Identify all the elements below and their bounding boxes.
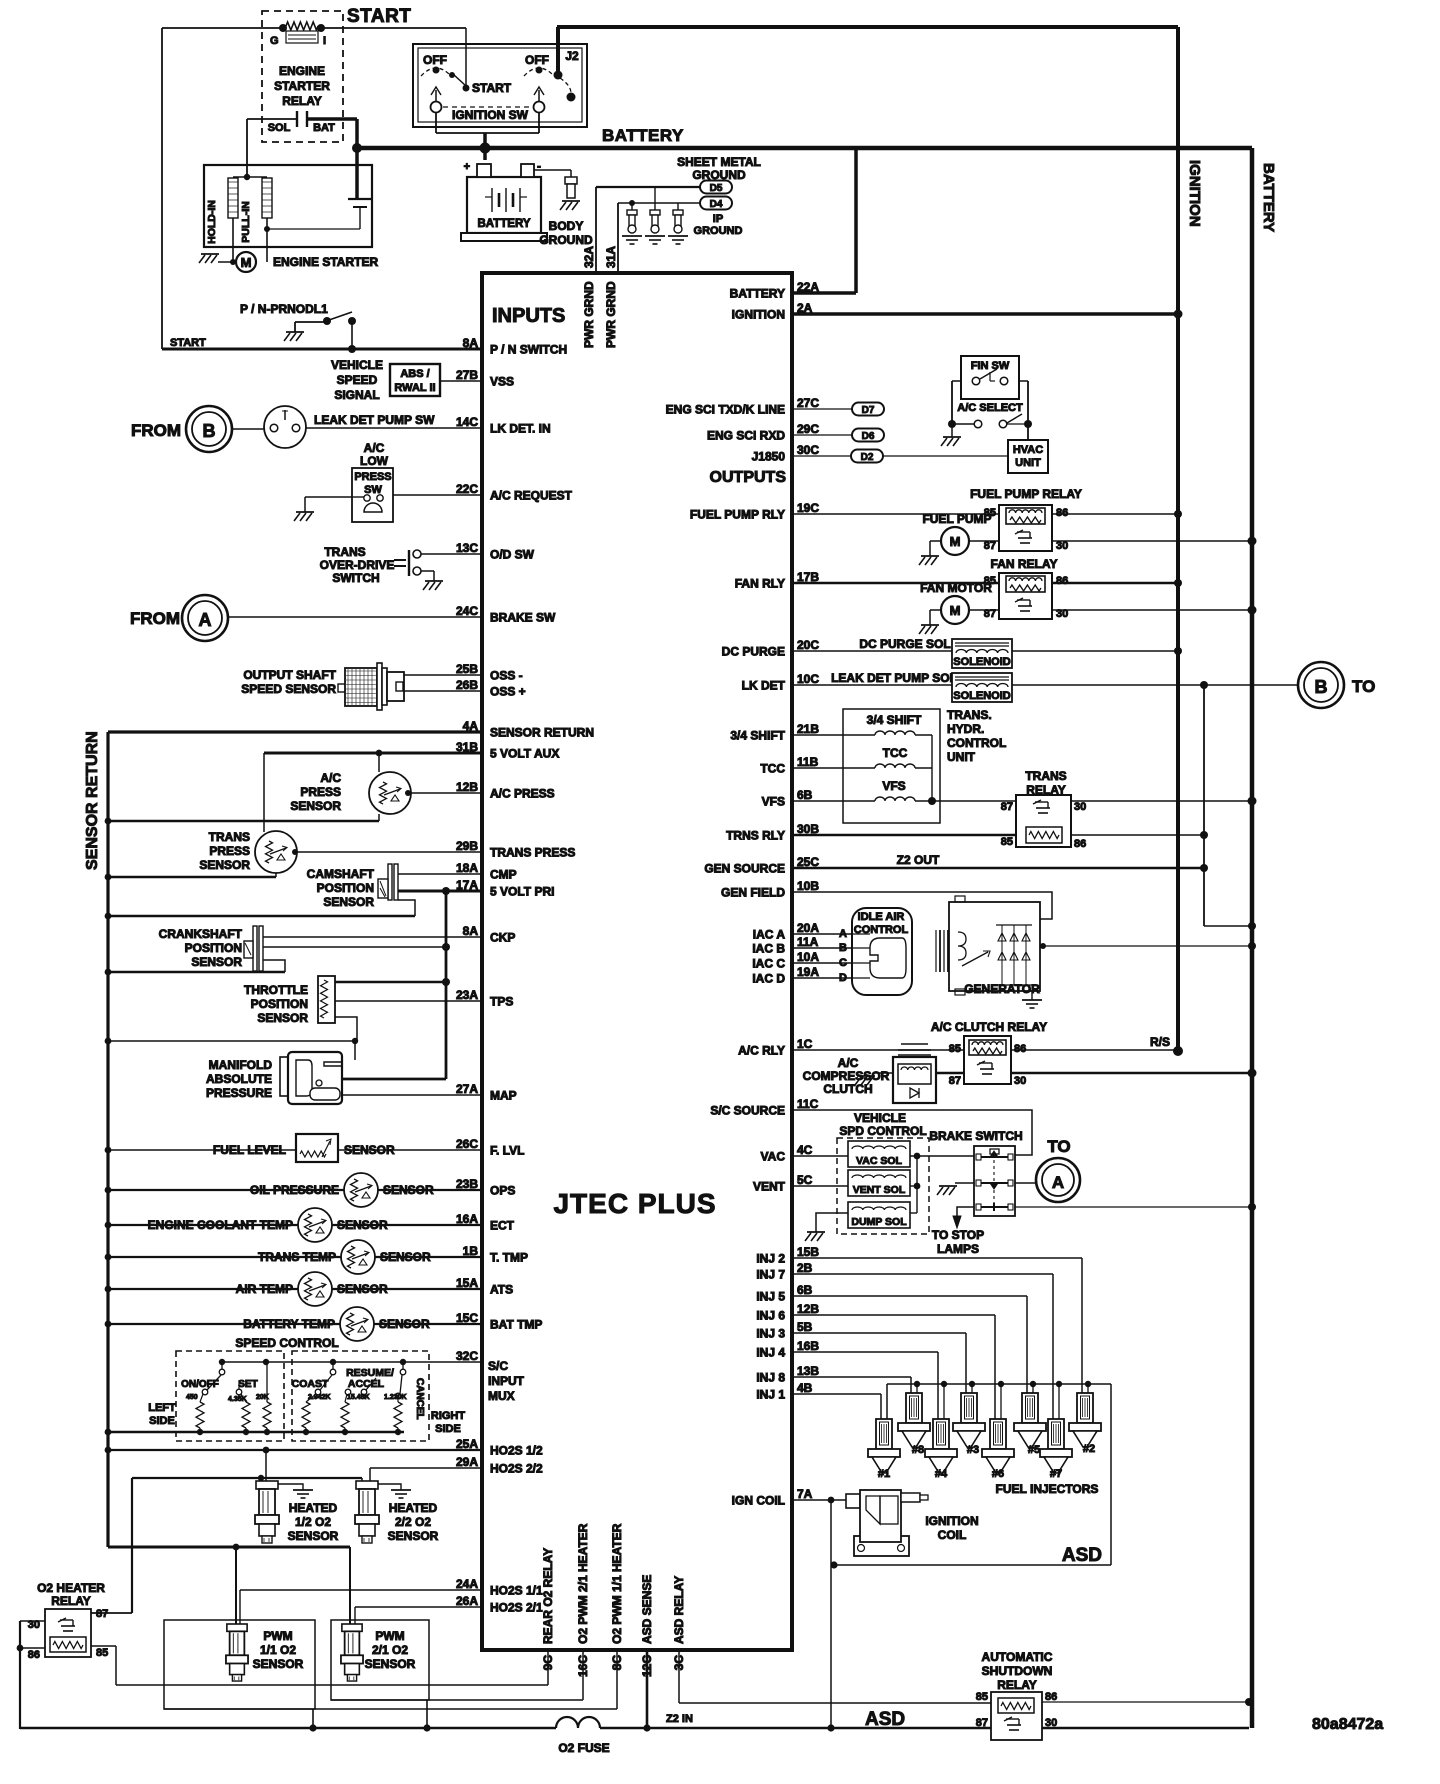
svg-text:15B: 15B xyxy=(797,1245,819,1259)
svg-text:1.230K: 1.230K xyxy=(384,1394,407,1401)
svg-text:MUX: MUX xyxy=(488,1389,515,1403)
svg-text:4.35K: 4.35K xyxy=(228,1396,247,1403)
svg-text:PRESS: PRESS xyxy=(209,844,250,858)
svg-text:BATTERY: BATTERY xyxy=(602,126,684,145)
svg-text:86: 86 xyxy=(1014,1043,1026,1055)
svg-text:SENSOR: SENSOR xyxy=(344,1143,395,1157)
svg-text:26B: 26B xyxy=(456,678,478,692)
svg-text:A: A xyxy=(1052,1173,1064,1192)
svg-text:SIDE: SIDE xyxy=(435,1423,461,1435)
svg-text:BRAKE SWITCH: BRAKE SWITCH xyxy=(929,1129,1022,1143)
svg-text:87: 87 xyxy=(96,1608,108,1620)
svg-text:ENGINE: ENGINE xyxy=(279,64,325,78)
svg-text:15.48K: 15.48K xyxy=(347,1394,370,1401)
svg-text:A/C CLUTCH RELAY: A/C CLUTCH RELAY xyxy=(931,1020,1047,1034)
svg-text:2.942K: 2.942K xyxy=(308,1394,331,1401)
svg-text:-: - xyxy=(537,159,541,173)
svg-text:3/4 SHIFT: 3/4 SHIFT xyxy=(867,713,922,727)
svg-text:87: 87 xyxy=(1001,801,1013,813)
svg-text:85: 85 xyxy=(96,1647,108,1659)
svg-text:4C: 4C xyxy=(797,1143,813,1157)
svg-text:GEN SOURCE: GEN SOURCE xyxy=(704,862,785,876)
svg-text:TO: TO xyxy=(1352,677,1375,696)
svg-text:FUEL INJECTORS: FUEL INJECTORS xyxy=(996,1482,1099,1496)
svg-text:6B: 6B xyxy=(797,1283,813,1297)
svg-text:A: A xyxy=(839,928,847,940)
svg-text:M: M xyxy=(950,603,961,618)
svg-text:GEN FIELD: GEN FIELD xyxy=(721,886,785,900)
svg-text:1/1 O2: 1/1 O2 xyxy=(260,1643,296,1657)
svg-text:TRNS RLY: TRNS RLY xyxy=(726,829,785,843)
svg-text:Z2 IN: Z2 IN xyxy=(666,1713,693,1725)
svg-text:UNIT: UNIT xyxy=(1015,457,1041,469)
svg-text:VAC SOL: VAC SOL xyxy=(856,1155,902,1167)
svg-text:RELAY: RELAY xyxy=(51,1594,91,1608)
svg-text:HYDR.: HYDR. xyxy=(947,722,984,736)
svg-text:14C: 14C xyxy=(456,415,478,429)
svg-text:INJ 2: INJ 2 xyxy=(756,1252,785,1266)
svg-text:OVER-DRIVE: OVER-DRIVE xyxy=(320,558,395,572)
svg-text:ASD: ASD xyxy=(1062,1545,1102,1566)
svg-text:OSS +: OSS + xyxy=(490,685,526,699)
svg-text:29A: 29A xyxy=(456,1455,478,1469)
svg-text:2/1 O2: 2/1 O2 xyxy=(372,1643,408,1657)
svg-text:INJ 6: INJ 6 xyxy=(756,1309,785,1323)
svg-text:85: 85 xyxy=(1001,836,1013,848)
svg-text:A/C REQUEST: A/C REQUEST xyxy=(490,489,573,503)
svg-text:SENSOR: SENSOR xyxy=(337,1218,388,1232)
svg-text:OPS: OPS xyxy=(490,1184,515,1198)
svg-text:MANIFOLD: MANIFOLD xyxy=(209,1058,273,1072)
svg-text:IAC B: IAC B xyxy=(752,942,785,956)
svg-text:#4: #4 xyxy=(935,1468,948,1480)
svg-text:13C: 13C xyxy=(456,541,478,555)
svg-text:SWITCH: SWITCH xyxy=(332,571,379,585)
svg-text:OUTPUTS: OUTPUTS xyxy=(710,469,787,486)
svg-text:RWAL II: RWAL II xyxy=(394,382,435,394)
svg-text:ASD: ASD xyxy=(865,1709,905,1730)
svg-text:SIGNAL: SIGNAL xyxy=(334,388,379,402)
svg-text:IGNITION SW: IGNITION SW xyxy=(452,108,529,122)
svg-text:STARTER: STARTER xyxy=(274,79,330,93)
svg-text:B: B xyxy=(203,421,216,441)
svg-text:POSITION: POSITION xyxy=(185,941,242,955)
svg-text:3/4 SHIFT: 3/4 SHIFT xyxy=(730,729,785,743)
svg-text:O2 HEATER: O2 HEATER xyxy=(37,1581,105,1595)
svg-text:#6: #6 xyxy=(992,1468,1004,1480)
svg-text:2B: 2B xyxy=(797,1261,813,1275)
svg-text:HVAC: HVAC xyxy=(1013,444,1043,456)
svg-text:20C: 20C xyxy=(797,638,819,652)
svg-text:INJ 7: INJ 7 xyxy=(756,1268,785,1282)
svg-text:PRESSURE: PRESSURE xyxy=(206,1086,272,1100)
svg-text:BATTERY: BATTERY xyxy=(477,218,530,230)
svg-text:ATS: ATS xyxy=(490,1283,513,1297)
svg-text:LEAK DET PUMP SOL: LEAK DET PUMP SOL xyxy=(831,671,957,685)
svg-text:AIR TEMP: AIR TEMP xyxy=(236,1282,293,1296)
svg-text:86: 86 xyxy=(1045,1691,1057,1703)
svg-text:A/C: A/C xyxy=(838,1056,859,1070)
svg-text:12B: 12B xyxy=(797,1302,819,1316)
svg-text:SENSOR: SENSOR xyxy=(199,858,250,872)
svg-text:SENSOR: SENSOR xyxy=(253,1657,304,1671)
svg-text:CONTROL: CONTROL xyxy=(947,736,1006,750)
svg-text:ASD SENSE: ASD SENSE xyxy=(640,1575,654,1644)
svg-text:BATTERY: BATTERY xyxy=(1260,163,1277,232)
svg-text:24A: 24A xyxy=(456,1577,478,1591)
svg-text:22C: 22C xyxy=(456,482,478,496)
svg-text:32A: 32A xyxy=(582,246,596,268)
svg-text:SOL: SOL xyxy=(268,122,291,134)
svg-text:SENSOR: SENSOR xyxy=(383,1183,434,1197)
svg-text:8A: 8A xyxy=(463,924,479,938)
svg-text:21B: 21B xyxy=(797,722,819,736)
svg-text:HO2S 2/1: HO2S 2/1 xyxy=(490,1601,543,1615)
svg-text:SOLENOID: SOLENOID xyxy=(953,656,1011,668)
svg-text:TCC: TCC xyxy=(760,762,785,776)
svg-text:SENSOR RETURN: SENSOR RETURN xyxy=(84,731,101,870)
svg-text:VENT SOL: VENT SOL xyxy=(853,1184,906,1196)
svg-text:SPD CONTROL: SPD CONTROL xyxy=(839,1124,926,1138)
svg-text:COAST: COAST xyxy=(292,1378,329,1390)
svg-text:M: M xyxy=(950,534,961,549)
svg-text:GENERATOR: GENERATOR xyxy=(964,982,1040,996)
svg-text:DC PURGE SOL: DC PURGE SOL xyxy=(859,637,950,651)
svg-text:IAC D: IAC D xyxy=(752,972,785,986)
svg-text:DUMP SOL: DUMP SOL xyxy=(851,1216,907,1228)
svg-text:#3: #3 xyxy=(967,1444,979,1456)
svg-text:85: 85 xyxy=(976,1691,988,1703)
svg-text:8A: 8A xyxy=(463,336,479,350)
svg-text:SENSOR: SENSOR xyxy=(191,955,242,969)
svg-text:GROUND: GROUND xyxy=(692,168,746,182)
svg-text:TCC: TCC xyxy=(883,746,908,760)
svg-text:6B: 6B xyxy=(797,788,813,802)
svg-text:PRESS: PRESS xyxy=(354,471,391,483)
svg-text:IDLE AIR: IDLE AIR xyxy=(858,911,905,923)
svg-text:FUEL PUMP RLY: FUEL PUMP RLY xyxy=(690,508,785,522)
svg-text:START: START xyxy=(170,337,206,349)
svg-text:HO2S 1/2: HO2S 1/2 xyxy=(490,1444,543,1458)
svg-text:INJ 8: INJ 8 xyxy=(756,1371,785,1385)
svg-text:B: B xyxy=(1315,677,1328,697)
svg-text:SOLENOID: SOLENOID xyxy=(953,690,1011,702)
svg-text:Z2 OUT: Z2 OUT xyxy=(897,853,940,867)
svg-text:24C: 24C xyxy=(456,604,478,618)
svg-text:12B: 12B xyxy=(456,780,478,794)
svg-text:#8: #8 xyxy=(912,1444,924,1456)
svg-text:FUEL PUMP: FUEL PUMP xyxy=(922,512,991,526)
svg-text:30: 30 xyxy=(1074,801,1086,813)
svg-text:IAC C: IAC C xyxy=(752,957,785,971)
svg-text:POSITION: POSITION xyxy=(251,997,308,1011)
svg-text:SPEED SENSOR: SPEED SENSOR xyxy=(241,682,336,696)
svg-text:30C: 30C xyxy=(797,443,819,457)
svg-text:O/D SW: O/D SW xyxy=(490,548,535,562)
svg-text:FAN MOTOR: FAN MOTOR xyxy=(920,581,992,595)
svg-text:SENSOR: SENSOR xyxy=(380,1250,431,1264)
svg-text:80a8472a: 80a8472a xyxy=(1312,1716,1383,1733)
svg-text:87: 87 xyxy=(984,540,996,552)
svg-text:SENSOR: SENSOR xyxy=(337,1282,388,1296)
svg-text:J2: J2 xyxy=(565,49,579,63)
svg-text:T. TMP: T. TMP xyxy=(490,1251,528,1265)
svg-text:TRANS PRESS: TRANS PRESS xyxy=(490,846,575,860)
svg-text:VENT: VENT xyxy=(753,1180,786,1194)
svg-text:7A: 7A xyxy=(797,1487,813,1501)
svg-text:IP: IP xyxy=(713,213,723,225)
svg-text:D7: D7 xyxy=(862,405,875,416)
svg-text:M: M xyxy=(241,255,252,270)
svg-text:INJ 5: INJ 5 xyxy=(756,1290,785,1304)
svg-text:CAMSHAFT: CAMSHAFT xyxy=(307,867,375,881)
svg-text:R/S: R/S xyxy=(1150,1035,1170,1049)
svg-text:RELAY: RELAY xyxy=(997,1678,1037,1692)
svg-text:SHUTDOWN: SHUTDOWN xyxy=(982,1664,1053,1678)
svg-text:A/C: A/C xyxy=(364,441,385,455)
svg-text:4B: 4B xyxy=(797,1381,813,1395)
svg-text:HO2S 1/1: HO2S 1/1 xyxy=(490,1584,543,1598)
svg-text:GROUND: GROUND xyxy=(539,233,593,247)
svg-text:MAP: MAP xyxy=(490,1089,517,1103)
svg-text:PRESS: PRESS xyxy=(300,785,341,799)
svg-text:IAC A: IAC A xyxy=(753,928,786,942)
svg-text:OSS -: OSS - xyxy=(490,669,523,683)
svg-text:10B: 10B xyxy=(797,879,819,893)
svg-text:FAN RELAY: FAN RELAY xyxy=(991,557,1058,571)
svg-text:86: 86 xyxy=(1056,575,1068,587)
svg-text:I: I xyxy=(323,35,326,47)
svg-text:UNIT: UNIT xyxy=(947,750,976,764)
svg-text:LEFT: LEFT xyxy=(148,1402,176,1414)
svg-text:INJ 3: INJ 3 xyxy=(756,1327,785,1341)
svg-text:11A: 11A xyxy=(797,935,819,949)
svg-text:450: 450 xyxy=(186,1394,198,1401)
svg-text:C: C xyxy=(839,957,847,969)
svg-text:D6: D6 xyxy=(862,431,875,442)
svg-text:TRANS TEMP: TRANS TEMP xyxy=(258,1250,336,1264)
svg-text:#5: #5 xyxy=(1028,1444,1040,1456)
svg-text:5 VOLT PRI: 5 VOLT PRI xyxy=(490,885,554,899)
svg-text:31A: 31A xyxy=(604,246,618,268)
svg-text:ABS /: ABS / xyxy=(400,368,429,380)
svg-text:PWR GRND: PWR GRND xyxy=(604,281,618,348)
svg-text:D2: D2 xyxy=(861,452,874,463)
svg-text:LK DET. IN: LK DET. IN xyxy=(490,422,551,436)
svg-text:27B: 27B xyxy=(456,368,478,382)
svg-text:RIGHT: RIGHT xyxy=(431,1410,466,1422)
svg-text:FUEL PUMP RELAY: FUEL PUMP RELAY xyxy=(970,487,1082,501)
svg-text:FIN SW: FIN SW xyxy=(971,360,1010,372)
svg-text:5C: 5C xyxy=(797,1173,813,1187)
svg-text:SENSOR: SENSOR xyxy=(290,799,341,813)
svg-text:OIL PRESSURE: OIL PRESSURE xyxy=(250,1183,339,1197)
svg-text:IGNITION: IGNITION xyxy=(1186,160,1203,227)
svg-text:TO: TO xyxy=(1047,1137,1070,1156)
svg-text:20K: 20K xyxy=(256,1394,269,1401)
svg-text:13B: 13B xyxy=(797,1364,819,1378)
svg-text:OUTPUT SHAFT: OUTPUT SHAFT xyxy=(243,668,336,682)
svg-text:START: START xyxy=(472,81,512,95)
svg-text:23A: 23A xyxy=(456,988,478,1002)
svg-text:A/C PRESS: A/C PRESS xyxy=(490,787,555,801)
svg-text:30: 30 xyxy=(1056,540,1068,552)
svg-text:G: G xyxy=(270,35,279,47)
svg-text:1/2 O2: 1/2 O2 xyxy=(295,1515,331,1529)
svg-text:#2: #2 xyxy=(1083,1443,1095,1455)
svg-text:INJ 1: INJ 1 xyxy=(756,1388,785,1402)
svg-text:O2 FUSE: O2 FUSE xyxy=(558,1741,609,1755)
svg-text:FAN RLY: FAN RLY xyxy=(735,577,785,591)
svg-text:OFF: OFF xyxy=(423,53,447,67)
svg-text:D4: D4 xyxy=(710,199,723,210)
svg-text:87: 87 xyxy=(949,1075,961,1087)
svg-text:S/C SOURCE: S/C SOURCE xyxy=(710,1104,785,1118)
svg-text:A: A xyxy=(199,610,212,630)
svg-text:B: B xyxy=(839,942,847,954)
svg-text:COMPRESSOR: COMPRESSOR xyxy=(803,1069,890,1083)
svg-text:CKP: CKP xyxy=(490,931,515,945)
svg-text:VEHICLE: VEHICLE xyxy=(854,1111,906,1125)
svg-text:10A: 10A xyxy=(797,950,819,964)
svg-text:TRANS.: TRANS. xyxy=(947,708,992,722)
svg-text:O2 PWM 1/1 HEATER: O2 PWM 1/1 HEATER xyxy=(610,1523,624,1644)
svg-text:TO STOP: TO STOP xyxy=(932,1228,984,1242)
svg-text:J1850: J1850 xyxy=(752,450,786,464)
svg-text:HEATED: HEATED xyxy=(389,1501,438,1515)
svg-text:CRANKSHAFT: CRANKSHAFT xyxy=(159,927,243,941)
svg-text:VFS: VFS xyxy=(882,779,905,793)
svg-text:GROUND: GROUND xyxy=(694,225,743,237)
svg-text:19C: 19C xyxy=(797,501,819,515)
svg-text:BATTERY: BATTERY xyxy=(730,287,785,301)
svg-text:IGNITION: IGNITION xyxy=(925,1514,978,1528)
svg-text:F. LVL: F. LVL xyxy=(490,1144,524,1158)
svg-text:26A: 26A xyxy=(456,1594,478,1608)
svg-text:86: 86 xyxy=(28,1649,40,1661)
svg-text:D5: D5 xyxy=(710,183,723,194)
svg-text:VEHICLE: VEHICLE xyxy=(331,358,383,372)
svg-text:OFF: OFF xyxy=(525,53,549,67)
svg-text:+: + xyxy=(464,161,470,173)
svg-text:27A: 27A xyxy=(456,1082,478,1096)
svg-text:30: 30 xyxy=(1014,1075,1026,1087)
svg-text:86: 86 xyxy=(1074,838,1086,850)
svg-text:CLUTCH: CLUTCH xyxy=(823,1082,872,1096)
svg-text:18A: 18A xyxy=(456,861,478,875)
svg-text:32C: 32C xyxy=(456,1349,478,1363)
svg-text:VAC: VAC xyxy=(761,1150,786,1164)
svg-text:IGN COIL: IGN COIL xyxy=(732,1494,785,1508)
svg-text:P / N SWITCH: P / N SWITCH xyxy=(490,343,567,357)
svg-text:BAT TMP: BAT TMP xyxy=(490,1318,542,1332)
svg-text:HO2S 2/2: HO2S 2/2 xyxy=(490,1462,543,1476)
svg-text:SENSOR: SENSOR xyxy=(388,1529,439,1543)
svg-text:ENGINE COOLANT TEMP: ENGINE COOLANT TEMP xyxy=(148,1218,293,1232)
svg-text:A/C RLY: A/C RLY xyxy=(738,1044,785,1058)
svg-text:5 VOLT AUX: 5 VOLT AUX xyxy=(490,747,559,761)
svg-text:2/2 O2: 2/2 O2 xyxy=(395,1515,431,1529)
svg-text:BATTERY TEMP: BATTERY TEMP xyxy=(243,1317,335,1331)
svg-text:SENSOR: SENSOR xyxy=(379,1317,430,1331)
svg-text:ABSOLUTE: ABSOLUTE xyxy=(206,1072,272,1086)
svg-text:29B: 29B xyxy=(456,839,478,853)
svg-text:BODY: BODY xyxy=(549,219,584,233)
svg-text:FUEL LEVEL: FUEL LEVEL xyxy=(213,1143,286,1157)
svg-text:COIL: COIL xyxy=(938,1528,967,1542)
svg-text:1C: 1C xyxy=(797,1037,813,1051)
svg-text:29C: 29C xyxy=(797,422,819,436)
svg-text:19A: 19A xyxy=(797,965,819,979)
svg-text:#7: #7 xyxy=(1050,1468,1062,1480)
svg-text:POSITION: POSITION xyxy=(317,881,374,895)
svg-text:TRANS: TRANS xyxy=(324,545,365,559)
svg-text:SPEED CONTROL: SPEED CONTROL xyxy=(235,1336,338,1350)
svg-text:PULL-IN: PULL-IN xyxy=(240,201,252,242)
svg-text:RELAY: RELAY xyxy=(282,94,322,108)
svg-text:S/C: S/C xyxy=(488,1359,508,1373)
svg-text:ENG SCI TXD/K LINE: ENG SCI TXD/K LINE xyxy=(666,403,785,417)
svg-text:ECT: ECT xyxy=(490,1219,515,1233)
svg-text:11C: 11C xyxy=(797,1097,819,1111)
svg-text:VSS: VSS xyxy=(490,375,514,389)
svg-text:REAR O2 RELAY: REAR O2 RELAY xyxy=(541,1548,555,1644)
svg-text:INPUT: INPUT xyxy=(488,1374,525,1388)
svg-text:LEAK DET PUMP SW: LEAK DET PUMP SW xyxy=(314,413,435,427)
svg-text:A/C SELECT: A/C SELECT xyxy=(957,402,1023,414)
svg-text:85: 85 xyxy=(949,1043,961,1055)
svg-text:26C: 26C xyxy=(456,1137,478,1151)
svg-text:LAMPS: LAMPS xyxy=(937,1242,979,1256)
svg-text:JTEC PLUS: JTEC PLUS xyxy=(553,1188,716,1219)
svg-text:FROM: FROM xyxy=(131,421,181,440)
svg-text:LK DET: LK DET xyxy=(742,679,786,693)
svg-text:30: 30 xyxy=(1045,1717,1057,1729)
svg-text:CMP: CMP xyxy=(490,868,517,882)
svg-text:ASD RELAY: ASD RELAY xyxy=(672,1576,686,1644)
svg-text:PWM: PWM xyxy=(263,1629,292,1643)
svg-text:#1: #1 xyxy=(878,1468,890,1480)
svg-text:HEATED: HEATED xyxy=(289,1501,338,1515)
svg-text:PWR GRND: PWR GRND xyxy=(582,281,596,348)
svg-text:SHEET METAL: SHEET METAL xyxy=(677,155,761,169)
svg-text:P / N-PRNODL1: P / N-PRNODL1 xyxy=(240,302,328,316)
svg-text:PWM: PWM xyxy=(375,1629,404,1643)
svg-text:10C: 10C xyxy=(797,672,819,686)
svg-text:D: D xyxy=(839,972,847,984)
svg-text:16B: 16B xyxy=(797,1339,819,1353)
svg-text:THROTTLE: THROTTLE xyxy=(244,983,308,997)
svg-text:BRAKE SW: BRAKE SW xyxy=(490,611,556,625)
svg-text:BAT: BAT xyxy=(313,122,335,134)
svg-text:27C: 27C xyxy=(797,396,819,410)
svg-text:SIDE: SIDE xyxy=(149,1415,175,1427)
svg-text:FROM: FROM xyxy=(130,609,180,628)
svg-text:CANCEL: CANCEL xyxy=(414,1378,425,1420)
svg-text:IGNITION: IGNITION xyxy=(732,308,785,322)
svg-text:O2 PWM 2/1 HEATER: O2 PWM 2/1 HEATER xyxy=(576,1523,590,1644)
svg-text:SET: SET xyxy=(238,1379,257,1390)
svg-text:HOLD-IN: HOLD-IN xyxy=(206,200,218,244)
svg-text:ACCEL: ACCEL xyxy=(348,1378,385,1390)
svg-text:SENSOR: SENSOR xyxy=(323,895,374,909)
svg-text:DC PURGE: DC PURGE xyxy=(722,645,785,659)
svg-text:A/C: A/C xyxy=(320,771,341,785)
svg-text:SENSOR RETURN: SENSOR RETURN xyxy=(490,726,594,740)
svg-text:11B: 11B xyxy=(797,755,819,769)
svg-text:SENSOR: SENSOR xyxy=(288,1529,339,1543)
svg-text:87: 87 xyxy=(976,1717,988,1729)
